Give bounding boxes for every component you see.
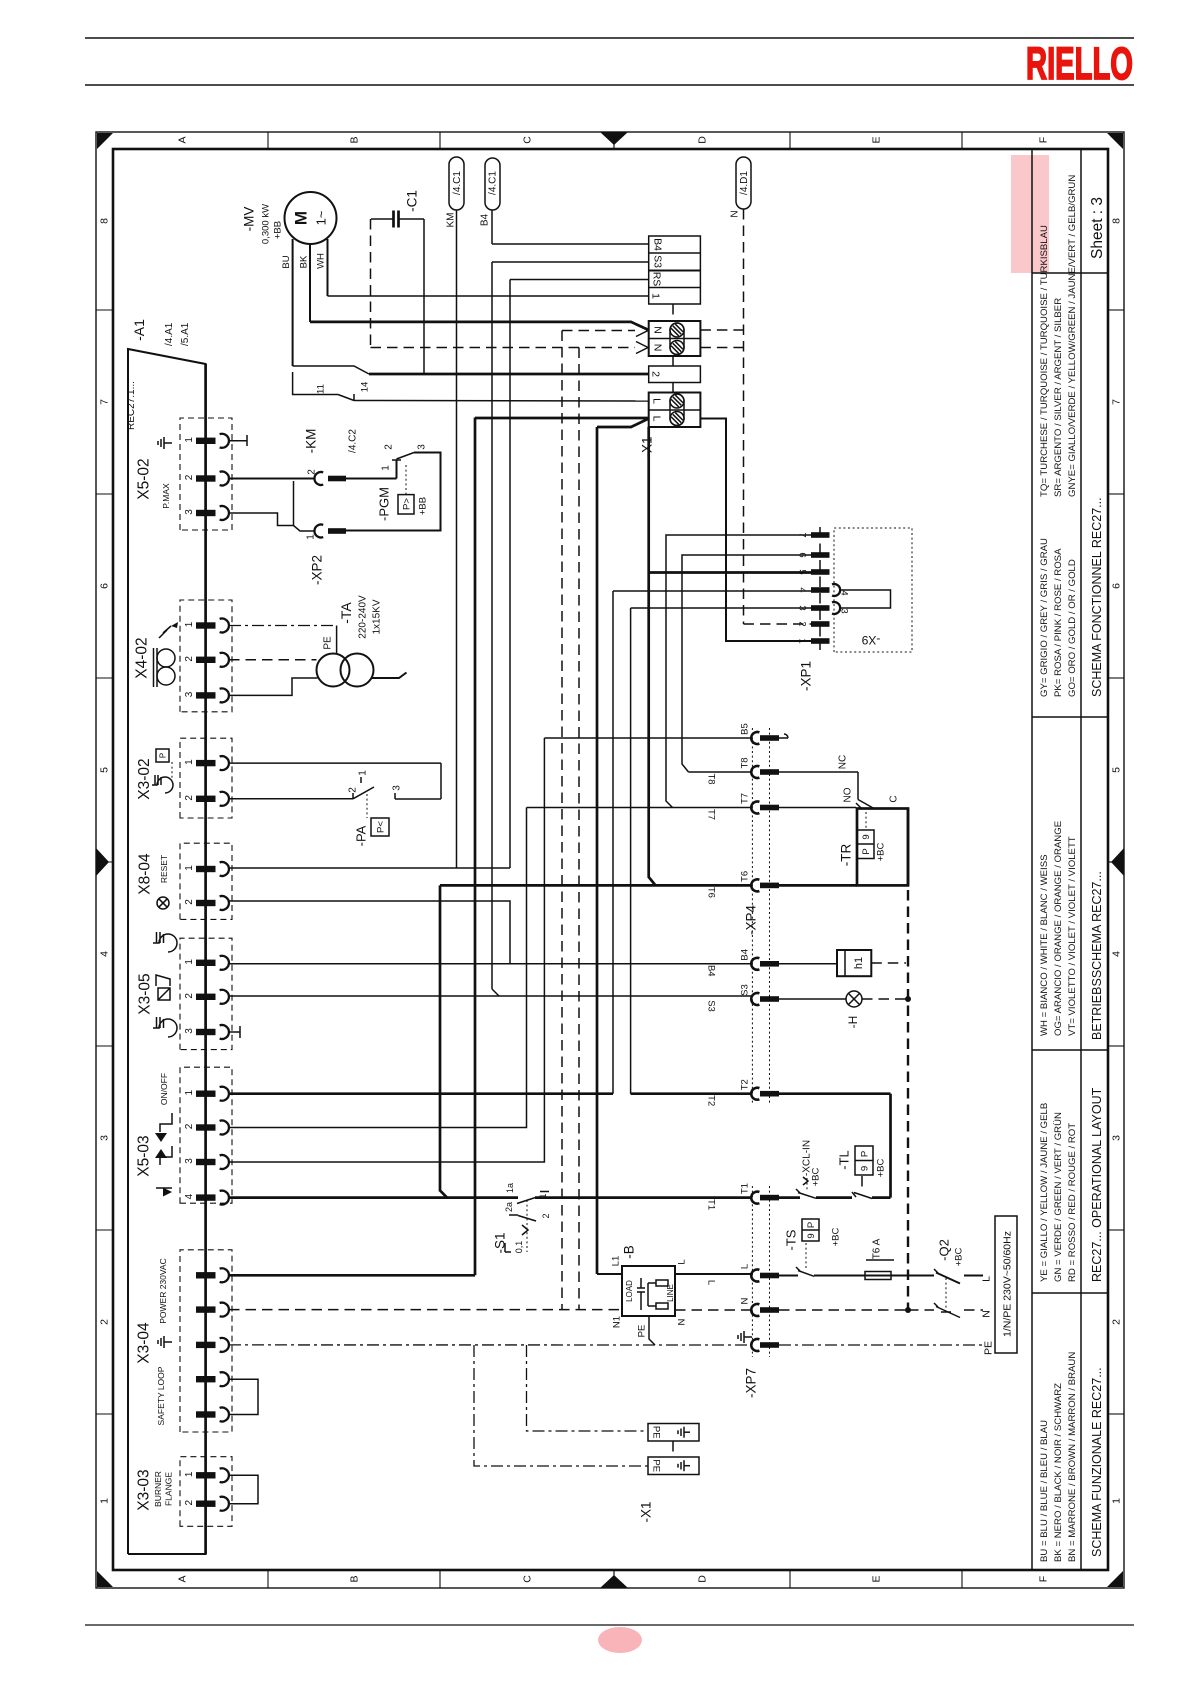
wire X4-02.2 dashed to TA	[229, 659, 317, 661]
X3-04 earth icon	[164, 1341, 172, 1343]
wire X1-L lower right to XP1.1	[700, 419, 811, 642]
svg-text:-B: -B	[622, 1245, 637, 1259]
svg-text:6: 6	[99, 583, 111, 589]
X1 L terminals circles	[670, 394, 684, 408]
svg-text:A: A	[177, 1575, 189, 1582]
svg-text:NC: NC	[838, 755, 849, 769]
svg-text:8: 8	[99, 218, 111, 224]
PE drop to X1-PE box 2	[474, 1345, 648, 1466]
svg-text:P: P	[861, 848, 872, 854]
wire X1-L lower to XP1.5 and T6	[649, 427, 656, 885]
wire X5-02.3 to XP2.1	[229, 513, 315, 531]
svg-text:1: 1	[381, 465, 392, 471]
connector XP2	[314, 472, 323, 485]
dashed N line X3-04.2 to filter B	[229, 1309, 622, 1311]
supply spec box 230V 50/60Hz	[995, 1216, 1017, 1353]
svg-text:PE: PE	[983, 1341, 995, 1355]
dashed N line B to XP7	[675, 1309, 751, 1311]
terminal XP4 T8	[751, 766, 759, 778]
svg-text:B: B	[349, 1575, 361, 1582]
svg-text:-X9: -X9	[861, 633, 880, 647]
dashed N wires into X1 with arrows	[562, 330, 635, 332]
svg-text:9: 9	[806, 1233, 817, 1238]
svg-text:1~: 1~	[314, 210, 329, 225]
wire T1 line right of S1	[535, 1196, 751, 1199]
svg-text:M: M	[292, 211, 311, 225]
svg-text:0,1: 0,1	[514, 1241, 524, 1254]
svg-text:+BB: +BB	[417, 497, 428, 515]
X5-03 max icon	[160, 1146, 172, 1165]
svg-text:1: 1	[358, 770, 369, 776]
RFI filter B box	[622, 1266, 675, 1316]
svg-text:P: P	[859, 1151, 870, 1157]
thermal relay TR box	[857, 809, 908, 886]
svg-text:-Q2: -Q2	[937, 1239, 952, 1261]
svg-text:N: N	[730, 210, 741, 217]
svg-text:-PGM: -PGM	[377, 487, 392, 521]
svg-text:8: 8	[1111, 218, 1123, 224]
svg-text:2: 2	[348, 787, 359, 793]
svg-text:NO: NO	[843, 787, 854, 802]
svg-text:1: 1	[184, 959, 195, 965]
X3-05 fan icons	[153, 932, 177, 952]
hour counter h1	[837, 950, 871, 976]
svg-text:/4.C1: /4.C1	[452, 171, 463, 195]
svg-text:1: 1	[306, 534, 317, 540]
svg-text:N: N	[739, 1297, 750, 1304]
capacitor C1	[371, 218, 393, 220]
svg-text:4: 4	[839, 590, 850, 595]
X5-03 arrow icon	[156, 1187, 172, 1189]
svg-text:T8: T8	[706, 773, 717, 784]
dashed link	[672, 356, 674, 366]
dashed wire C1 to X1-N	[370, 219, 372, 347]
svg-text:3: 3	[1111, 1135, 1123, 1141]
svg-text:X5-03: X5-03	[135, 1135, 152, 1176]
svg-text:-X1: -X1	[640, 436, 655, 457]
TA secondary output	[371, 673, 407, 679]
terminal block X1 cells B4 S3 RS 1	[649, 236, 701, 304]
X5-02 earth icon	[164, 442, 172, 444]
svg-text:WH = BIANCO / WHITE / BLANC /: WH = BIANCO / WHITE / BLANC / WEISS	[1039, 854, 1050, 1036]
svg-text:BU: BU	[281, 255, 292, 268]
svg-text:2: 2	[184, 656, 195, 662]
wire X8-04.1 reset	[229, 867, 510, 869]
terminal block X1 cells N N	[649, 321, 701, 356]
svg-text:B4: B4	[706, 965, 717, 977]
svg-text:-XP4: -XP4	[744, 905, 759, 936]
svg-text:0,300 kW: 0,300 kW	[260, 204, 271, 244]
svg-text:GO= ORO / GOLD / OR / GOLD: GO= ORO / GOLD / OR / GOLD	[1067, 559, 1078, 697]
pink highlight rectangle	[1011, 155, 1049, 273]
terminal XP4 S3	[751, 993, 759, 1005]
dashed wire N flag down to XP1 pin2	[743, 209, 745, 624]
svg-text:1: 1	[1111, 1498, 1123, 1504]
svg-text:220-240V: 220-240V	[358, 595, 369, 639]
ignition transformer TA	[317, 654, 350, 687]
svg-text:-A1: -A1	[131, 319, 147, 341]
X3-04 safety loop jumper	[229, 1379, 258, 1414]
off-page flag B4 /4.C1	[485, 158, 500, 210]
X1 N terminals circles	[670, 323, 684, 337]
wire X4-02.3 to TA	[229, 678, 318, 695]
svg-text:T7: T7	[739, 793, 750, 804]
svg-text:-C1: -C1	[405, 190, 420, 212]
connector X3-02	[180, 738, 232, 818]
svg-text:P.MAX: P.MAX	[161, 483, 171, 509]
off-page flag KM /4.C1	[449, 157, 464, 210]
svg-text:SCHEMA FUNZIONALE REC27...: SCHEMA FUNZIONALE REC27...	[1090, 1367, 1104, 1557]
wire RS vertical to reset line	[509, 280, 511, 869]
pink ellipse page number	[598, 1627, 642, 1653]
svg-text:T8: T8	[739, 757, 750, 768]
svg-text:N1: N1	[611, 1316, 622, 1328]
switch S1	[517, 1198, 535, 1204]
svg-text:/5.A1: /5.A1	[180, 322, 191, 346]
svg-text:T6: T6	[706, 887, 717, 898]
svg-text:4: 4	[797, 587, 808, 592]
svg-text:B4: B4	[480, 213, 491, 226]
svg-text:1: 1	[649, 293, 661, 299]
svg-text:BN = MARRONE / BROWN / MARRON: BN = MARRONE / BROWN / MARRON / BRAUN	[1067, 1352, 1078, 1562]
svg-text:-PA: -PA	[354, 825, 369, 846]
wire X8-04.2 drop to T1	[509, 900, 511, 902]
X5-02 pin1 stub	[229, 440, 247, 442]
svg-text:N: N	[651, 326, 663, 334]
svg-text:BK: BK	[298, 255, 309, 268]
svg-text:L: L	[981, 1276, 993, 1282]
wire XP1.6 riser to T8	[682, 555, 811, 772]
svg-text:2: 2	[541, 1213, 551, 1218]
svg-text:L1: L1	[610, 1256, 621, 1267]
svg-text:WH: WH	[315, 253, 326, 269]
wire WH motor lead to X1-1	[327, 239, 329, 296]
svg-text:VT= VIOLETTO / VIOLET / VIOLET: VT= VIOLETTO / VIOLET / VIOLET / VIOLETT	[1067, 836, 1078, 1036]
svg-text:2: 2	[99, 1319, 111, 1325]
svg-text:X3-04: X3-04	[135, 1322, 152, 1364]
svg-text:+BC: +BC	[875, 1158, 886, 1177]
wire XP1.4 riser	[612, 591, 614, 1094]
connector X5-02	[180, 418, 232, 530]
svg-text:3: 3	[417, 444, 428, 450]
wire KM flag down to RS line	[456, 210, 458, 868]
limit thermostat TL circuit loop	[779, 1092, 891, 1095]
svg-text:1: 1	[184, 759, 195, 765]
svg-text:3: 3	[392, 785, 403, 791]
wire X4-02.1 PE dashdot	[229, 625, 337, 627]
dashed link X1	[672, 304, 674, 321]
svg-text:X8-04: X8-04	[136, 853, 153, 895]
dashes h1 to N	[871, 962, 906, 964]
svg-text:N: N	[676, 1318, 687, 1325]
svg-text:1: 1	[184, 437, 195, 443]
svg-text:T7: T7	[706, 809, 717, 820]
dashed N distribution verticals	[561, 331, 563, 1310]
svg-text:C: C	[522, 1575, 534, 1583]
svg-text:L: L	[739, 1264, 750, 1269]
corner marks	[97, 133, 113, 149]
terminal block X1 cell 2	[649, 366, 701, 383]
svg-text:/4.D1: /4.D1	[739, 171, 750, 195]
svg-text:Sheet : 3: Sheet : 3	[1089, 197, 1106, 259]
svg-text:-H: -H	[846, 1016, 860, 1029]
svg-text:S3: S3	[739, 984, 750, 996]
XP4 mating axes dotted	[751, 728, 753, 1105]
svg-text:BETRIEBSSCHEMA REC27...: BETRIEBSSCHEMA REC27...	[1090, 871, 1104, 1040]
bottom rule	[85, 1624, 1134, 1626]
wire T8 line	[689, 771, 752, 773]
svg-text:SAFETY LOOP: SAFETY LOOP	[156, 1366, 166, 1425]
dashed N to Q2	[779, 1309, 906, 1311]
wire X5-03.4 / T1 line left	[229, 1196, 518, 1199]
connector X9 sockets on pins 4 and 3	[832, 584, 840, 596]
svg-text:F: F	[1038, 137, 1050, 143]
svg-text:1x15KV: 1x15KV	[372, 599, 383, 634]
svg-text:S3: S3	[651, 255, 663, 268]
svg-text:REC27... OPERATIONAL LAYOUT: REC27... OPERATIONAL LAYOUT	[1090, 1087, 1104, 1282]
svg-text:RESET: RESET	[159, 855, 169, 883]
svg-text:FLANGE: FLANGE	[164, 1472, 174, 1506]
title block	[1031, 149, 1033, 1570]
svg-text:T1: T1	[739, 1183, 750, 1194]
svg-text:B5: B5	[739, 723, 750, 735]
svg-text:T6: T6	[739, 871, 750, 882]
X3-05 servo icon	[158, 988, 170, 1000]
TL contact	[872, 1196, 891, 1199]
wire C1 to X1-2	[423, 219, 425, 374]
lamp H	[846, 991, 862, 1007]
svg-text:1/N/PE 230V~50/60Hz: 1/N/PE 230V~50/60Hz	[1002, 1231, 1014, 1337]
svg-text:1: 1	[184, 621, 195, 627]
svg-text:-XP1: -XP1	[799, 661, 814, 691]
svg-text:P: P	[806, 1222, 817, 1228]
svg-text:KM: KM	[446, 213, 457, 228]
PE drop to X1-PE box 1	[527, 1345, 649, 1431]
terminal XP4 T6	[751, 879, 759, 891]
wire X1-S3	[492, 261, 649, 263]
svg-text:3: 3	[184, 1158, 195, 1164]
X9 jumper pins 4-3	[840, 590, 891, 608]
svg-text:BURNER: BURNER	[153, 1471, 163, 1507]
svg-text:2: 2	[649, 371, 661, 377]
TR operator box P9	[857, 830, 874, 859]
X3-03 jumper	[229, 1475, 258, 1503]
svg-text:2: 2	[1111, 1319, 1123, 1325]
fuse T6 A	[865, 1272, 891, 1280]
air pressure switch PA	[229, 762, 441, 764]
svg-text:P: P	[158, 753, 167, 758]
wire X1-RS	[510, 279, 649, 281]
svg-text:4: 4	[99, 951, 111, 957]
svg-text:L: L	[650, 398, 662, 404]
svg-text:3: 3	[839, 608, 850, 613]
wire X5-03.3 to B5	[229, 738, 544, 1162]
svg-text:6: 6	[1111, 583, 1123, 589]
svg-text:RIELLO: RIELLO	[1026, 38, 1133, 89]
svg-text:9: 9	[861, 834, 872, 839]
svg-text:1: 1	[99, 1498, 111, 1504]
connector X3-04	[180, 1250, 232, 1432]
terminal XP4 T2	[751, 1088, 759, 1100]
control box A1 outline	[128, 349, 206, 1554]
svg-text:LINE: LINE	[666, 1284, 675, 1302]
pressure switch PGM	[346, 478, 397, 480]
svg-text:L: L	[706, 1280, 717, 1285]
X4-02 lightning icon	[159, 626, 171, 638]
X5-03 min icon	[160, 1113, 172, 1132]
svg-text:1a: 1a	[505, 1183, 515, 1193]
svg-text:B4: B4	[739, 949, 750, 961]
wire L-upper from KM contact	[354, 400, 649, 403]
terminal XP7 PE earth symbol	[751, 1339, 759, 1351]
svg-text:E: E	[871, 1575, 883, 1582]
svg-text:+BC: +BC	[875, 842, 886, 861]
svg-text:REC27.1...: REC27.1...	[126, 381, 137, 430]
svg-text:-TA: -TA	[338, 602, 354, 624]
X4-02 ignition transformer icon	[154, 648, 176, 687]
svg-text:X3-02: X3-02	[136, 758, 153, 799]
PE line to supply	[779, 1344, 983, 1346]
svg-text:-TR: -TR	[839, 844, 854, 867]
terminal XP4 B4	[751, 958, 759, 970]
svg-text:SCHEMA FONCTIONNEL REC27...: SCHEMA FONCTIONNEL REC27...	[1090, 497, 1104, 697]
svg-text:+BC: +BC	[810, 1167, 821, 1186]
wire B4 flag to X1-B4	[491, 210, 493, 244]
connector X4-02	[180, 600, 232, 712]
svg-text:1: 1	[184, 1471, 195, 1477]
terminal XP7 N	[751, 1304, 759, 1316]
svg-text:PE: PE	[651, 1459, 662, 1472]
X3-02 pressure switch icon	[156, 749, 169, 762]
svg-text:RS: RS	[650, 272, 662, 287]
svg-text:-KM: -KM	[304, 429, 319, 454]
dashed link between PE boxes	[672, 1441, 674, 1457]
svg-text:PE: PE	[636, 1325, 647, 1338]
earth terminal X1 PE lower	[648, 1457, 699, 1475]
svg-text:B4: B4	[651, 238, 663, 251]
svg-text:T6 A: T6 A	[872, 1238, 883, 1259]
svg-text:1: 1	[184, 1089, 195, 1095]
filter PE stub	[649, 1316, 655, 1345]
svg-text:-S1: -S1	[493, 1232, 508, 1253]
svg-text:3: 3	[99, 1135, 111, 1141]
connector X3-05	[180, 938, 232, 1049]
svg-text:11: 11	[315, 384, 326, 394]
connector X8-04	[180, 843, 232, 919]
svg-text:/4.C1: /4.C1	[488, 171, 499, 195]
svg-text:1: 1	[538, 1193, 548, 1198]
svg-text:2: 2	[797, 621, 808, 626]
svg-text:2a: 2a	[504, 1202, 514, 1212]
svg-text:GNYE= GIALLO/VERDE / YELLOW/GR: GNYE= GIALLO/VERDE / YELLOW/GREEN / JAUN…	[1067, 175, 1078, 497]
svg-text:BU = BLU / BLUE / BLEU / BLAU: BU = BLU / BLUE / BLEU / BLAU	[1039, 1420, 1050, 1562]
svg-text:L: L	[650, 416, 662, 422]
svg-text:POWER 230VAC: POWER 230VAC	[158, 1258, 168, 1324]
svg-text:4: 4	[1111, 951, 1123, 957]
svg-text:X4-02: X4-02	[133, 637, 150, 678]
wire S3 vertical	[491, 262, 493, 989]
filter internals	[656, 1280, 668, 1286]
svg-text:OG= ARANCIO / ORANGE / ORANGE: OG= ARANCIO / ORANGE / ORANGE / ORANGE	[1053, 821, 1064, 1036]
svg-text:+BC: +BC	[953, 1247, 964, 1266]
svg-text:4: 4	[184, 1193, 195, 1199]
svg-text:2: 2	[184, 1499, 195, 1505]
svg-text:2: 2	[307, 469, 318, 475]
wire X8-04.2 to B4	[229, 901, 510, 964]
connector X3-03	[180, 1457, 232, 1527]
XP1 mating axis	[819, 527, 821, 650]
svg-text:A: A	[177, 136, 189, 143]
wire X3-04.1 stub	[229, 1274, 475, 1277]
svg-text:D: D	[697, 136, 709, 144]
svg-text:F: F	[1038, 1576, 1050, 1582]
X8-04 lamp icon	[157, 897, 169, 909]
connector XP1 pins	[811, 532, 830, 538]
svg-text:B: B	[349, 136, 361, 143]
svg-text:9: 9	[859, 1166, 870, 1171]
svg-text:5: 5	[1111, 767, 1123, 773]
wire BU to X1-2 jog	[293, 366, 369, 374]
svg-text:C: C	[522, 136, 534, 144]
svg-text:C: C	[889, 795, 900, 802]
svg-text:3: 3	[184, 691, 195, 697]
motor MV	[285, 192, 337, 244]
svg-text:2: 2	[384, 444, 395, 450]
junction dots on N dashed line	[905, 996, 911, 1002]
connector X5-03	[180, 1067, 232, 1203]
S1 second pole	[509, 1214, 518, 1216]
N dashed trunk from TR C to XP7 N	[907, 809, 910, 886]
wire T2 right to XP4	[631, 1092, 752, 1095]
svg-text:X5-02: X5-02	[135, 458, 152, 499]
terminal XP4 B5	[751, 732, 759, 744]
svg-text:2: 2	[184, 899, 195, 905]
svg-text:1: 1	[184, 865, 195, 871]
wire BK motor lead to X1-N	[309, 245, 311, 322]
svg-text:L: L	[676, 1259, 687, 1264]
main switch Q2	[908, 1275, 934, 1277]
svg-text:h1: h1	[853, 957, 865, 969]
svg-text:N: N	[651, 344, 663, 352]
svg-text:-TL: -TL	[837, 1150, 852, 1170]
wire T7 line	[527, 807, 752, 809]
svg-text:T2: T2	[706, 1095, 717, 1106]
wire XP1.3 riser	[630, 608, 632, 1094]
wire B4 line	[229, 963, 751, 965]
svg-text:2: 2	[184, 993, 195, 999]
terminal XP7 T1	[751, 1192, 759, 1204]
svg-text:TQ= TURCHESE / TURQUOISE / TUR: TQ= TURCHESE / TURQUOISE / TURQUOISE / T…	[1039, 225, 1050, 497]
page top rules	[85, 37, 1134, 39]
svg-text:X3-03: X3-03	[135, 1469, 152, 1510]
S1 operator	[526, 1200, 528, 1252]
svg-text:-XP2: -XP2	[310, 555, 325, 585]
svg-text:PE: PE	[651, 1426, 662, 1439]
svg-text:E: E	[871, 136, 883, 143]
svg-text:-MV: -MV	[242, 207, 257, 232]
svg-text:2: 2	[184, 1123, 195, 1129]
svg-text:/4.C2: /4.C2	[348, 429, 359, 453]
svg-text:PE: PE	[323, 636, 334, 650]
wire X5-02.2 to XP2.2	[229, 478, 315, 480]
wire BU motor lead	[292, 239, 294, 366]
svg-text:-TS: -TS	[784, 1229, 799, 1250]
terminal XP4 T7	[751, 802, 759, 814]
svg-text:P>: P>	[401, 498, 412, 510]
svg-text:LOAD: LOAD	[625, 1280, 634, 1302]
svg-text:RD = ROSSO / RED / ROUGE / ROT: RD = ROSSO / RED / ROUGE / ROT	[1067, 1123, 1078, 1282]
drawing frame outer	[96, 132, 1124, 1588]
